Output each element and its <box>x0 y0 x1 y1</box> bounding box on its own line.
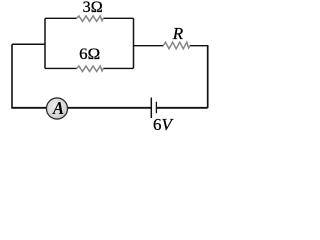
ammeter A body <box>46 98 67 119</box>
wire left tap <box>12 43 45 45</box>
wire top branch right lead <box>103 17 133 19</box>
svg-text:A: A <box>52 98 64 118</box>
wire right outer vertical <box>207 46 209 108</box>
resistor R zigzag <box>163 42 190 49</box>
battery short plate <box>155 102 157 114</box>
wire top right right lead <box>190 45 208 47</box>
resistor R2 6-ohm zigzag <box>77 66 104 72</box>
svg-text:3Ω: 3Ω <box>83 0 103 16</box>
resistor R1 3-ohm zigzag <box>77 16 104 22</box>
svg-text:6Ω: 6Ω <box>79 46 100 63</box>
wire parallel box left edge <box>44 18 46 68</box>
wire bottom left segment <box>11 107 151 109</box>
wire left outer vertical <box>11 44 13 108</box>
battery long plate <box>150 98 152 119</box>
wire parallel box right edge <box>133 18 135 68</box>
wire bottom right segment <box>156 107 207 109</box>
svg-text:6V: 6V <box>153 115 175 134</box>
wire bottom branch right lead <box>103 67 133 69</box>
wire top branch left lead <box>45 17 77 19</box>
wire bottom branch left lead <box>45 67 77 69</box>
svg-text:R: R <box>172 24 184 43</box>
wire top right left lead <box>134 45 164 47</box>
